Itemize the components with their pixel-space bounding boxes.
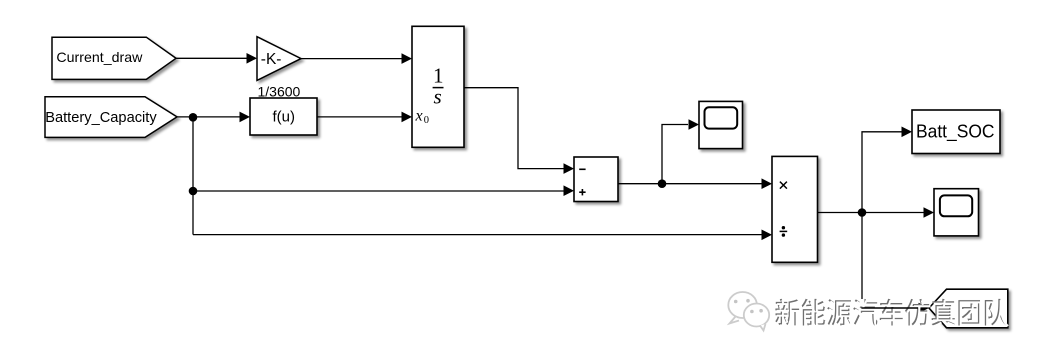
wire Current_draw to gain [176, 53, 257, 64]
wire branch up to scope1 [662, 119, 699, 184]
svg-text:0: 0 [424, 115, 429, 126]
svg-text:s: s [434, 85, 442, 109]
svg-text:Batt_SOC: Batt_SOC [916, 122, 995, 143]
outport tag bottom right [929, 289, 1008, 328]
gain block G1 (-K-) [257, 37, 301, 81]
wire branch down to goto tag [862, 213, 929, 314]
wire Battery_Capacity to Fcn [177, 112, 250, 123]
svg-text:-K-: -K- [261, 51, 282, 68]
junction node after product [858, 208, 867, 217]
scope block Scope2 [934, 189, 979, 236]
wire integrator to sum minus input [464, 88, 574, 174]
product block (times divide) [772, 156, 818, 262]
inport tag Current_draw [52, 37, 176, 79]
wire branch up to Batt_SOC outport [862, 127, 912, 213]
wire Fcn to integrator x0 [317, 112, 412, 123]
svg-text:Battery_Capacity: Battery_Capacity [45, 109, 157, 126]
svg-text:1/3600: 1/3600 [258, 84, 301, 100]
junction node after sum [658, 179, 667, 188]
inport tag Battery_Capacity [45, 97, 177, 138]
wire product to scope2 [818, 207, 935, 218]
junction node at sum branch [189, 187, 198, 196]
wire branch to product divide input [193, 230, 772, 241]
sum block (minus plus) [574, 157, 618, 202]
wire segment to goto tag over watermark [861, 307, 918, 309]
svg-text:x: x [415, 108, 423, 125]
wire sum to product times input [618, 178, 772, 189]
junction node at Battery_Capacity branch [189, 113, 198, 122]
wire gain to integrator [301, 53, 412, 64]
Fcn block f(u) with label 1/3600 above [250, 98, 317, 135]
watermark wechat logo [728, 292, 769, 331]
glyph overlap patch on wire [860, 299, 865, 307]
scope block Scope1 [699, 101, 743, 148]
outport block Batt_SOC [912, 110, 1000, 154]
svg-text:f(u): f(u) [273, 109, 296, 126]
wire vertical branch down from Battery_Capacity [192, 117, 194, 234]
watermark text gray shadow layer [775, 299, 1007, 326]
svg-text:Current_draw: Current_draw [56, 49, 143, 65]
integrator block 1/s [412, 26, 464, 147]
wire branch to sum plus input [193, 185, 574, 196]
watermark text white layer [777, 300, 1009, 327]
